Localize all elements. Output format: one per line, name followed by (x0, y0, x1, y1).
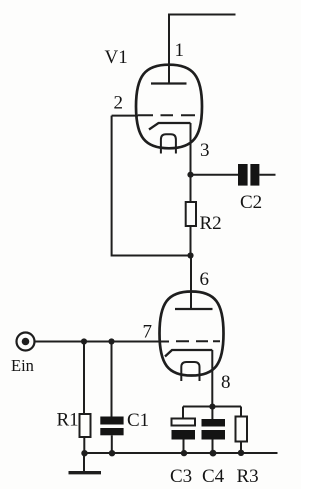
wire cathode V1 down (pin 3) (190, 123, 192, 202)
V1 anode plate (pin 1) (151, 82, 187, 84)
svg-text:C3: C3 (170, 466, 192, 487)
wire input to grid V2 (35, 341, 170, 343)
V1 heater (161, 134, 176, 153)
svg-text:1: 1 (175, 40, 185, 61)
V1 grid (dashed, pin 2) (138, 114, 195, 116)
wire node to C1 (111, 342, 113, 417)
node C3 / ground rail (181, 450, 187, 456)
wire top rail to C3 (182, 407, 184, 419)
input terminal Ein (17, 333, 35, 351)
wire grid V1 to left loop (112, 115, 138, 117)
node C1 tap (108, 338, 114, 344)
svg-text:6: 6 (200, 269, 210, 290)
svg-text:V1: V1 (105, 47, 128, 68)
resistor R2 (186, 202, 196, 226)
wire R3 to ground rail (240, 442, 242, 454)
resistor R1 (80, 414, 91, 437)
V2 cathode (165, 350, 212, 357)
svg-text:R1: R1 (57, 410, 79, 431)
wire node to anode V2 (pin 6) (190, 256, 192, 310)
capacitor C2 (238, 164, 259, 186)
svg-text:2: 2 (114, 93, 124, 114)
svg-text:7: 7 (143, 322, 153, 343)
wire R2 to node (190, 226, 192, 256)
svg-text:8: 8 (221, 372, 231, 393)
capacitor C3 (electrolytic) (172, 419, 196, 426)
svg-text:C4: C4 (202, 466, 225, 487)
svg-text:C2: C2 (240, 192, 262, 213)
resistor R3 (236, 417, 248, 442)
capacitor C4 (202, 419, 226, 440)
node R3 / ground rail (238, 450, 244, 456)
svg-text:3: 3 (200, 140, 210, 161)
wire node to C2 (191, 174, 239, 176)
svg-text:R2: R2 (200, 213, 222, 234)
wire cathode network top rail (183, 406, 241, 408)
wire pin8 to C4 (211, 407, 213, 420)
tube V1 envelope (136, 65, 202, 149)
node R1 tap (81, 338, 87, 344)
svg-text:Ein: Ein (11, 356, 34, 375)
node R2 / feedback junction (187, 252, 193, 258)
V2 heater (181, 362, 199, 381)
node C1 / ground rail (109, 450, 115, 456)
tube V2 envelope (160, 292, 224, 376)
V2 anode plate (175, 308, 213, 310)
node pin 8 junction (209, 404, 215, 410)
wire R1 to ground rail (83, 437, 85, 453)
wire left feedback loop (112, 116, 188, 256)
wire cathode V2 down (pin 8) (211, 350, 213, 407)
node R1 / ground rail (81, 450, 87, 456)
node cathode V1 / C2 junction (187, 172, 193, 178)
wire anode V1 to top supply rail (169, 15, 236, 85)
ground (83, 453, 85, 471)
svg-text:R3: R3 (237, 466, 259, 487)
wire node to R1 (83, 342, 85, 415)
wire C2 output (259, 174, 275, 176)
V1 cathode (149, 123, 191, 130)
wire C1 to ground rail (111, 435, 113, 453)
node C4 / ground rail (210, 450, 217, 457)
V2 grid (dashed, pin 7) (176, 340, 220, 342)
wire C4 to ground rail (212, 440, 214, 454)
wire ground rail (84, 452, 278, 454)
wire C3 to ground rail (183, 440, 185, 454)
capacitor C1 (100, 417, 123, 436)
wire top rail to R3 (240, 407, 242, 417)
svg-text:C1: C1 (127, 410, 149, 431)
